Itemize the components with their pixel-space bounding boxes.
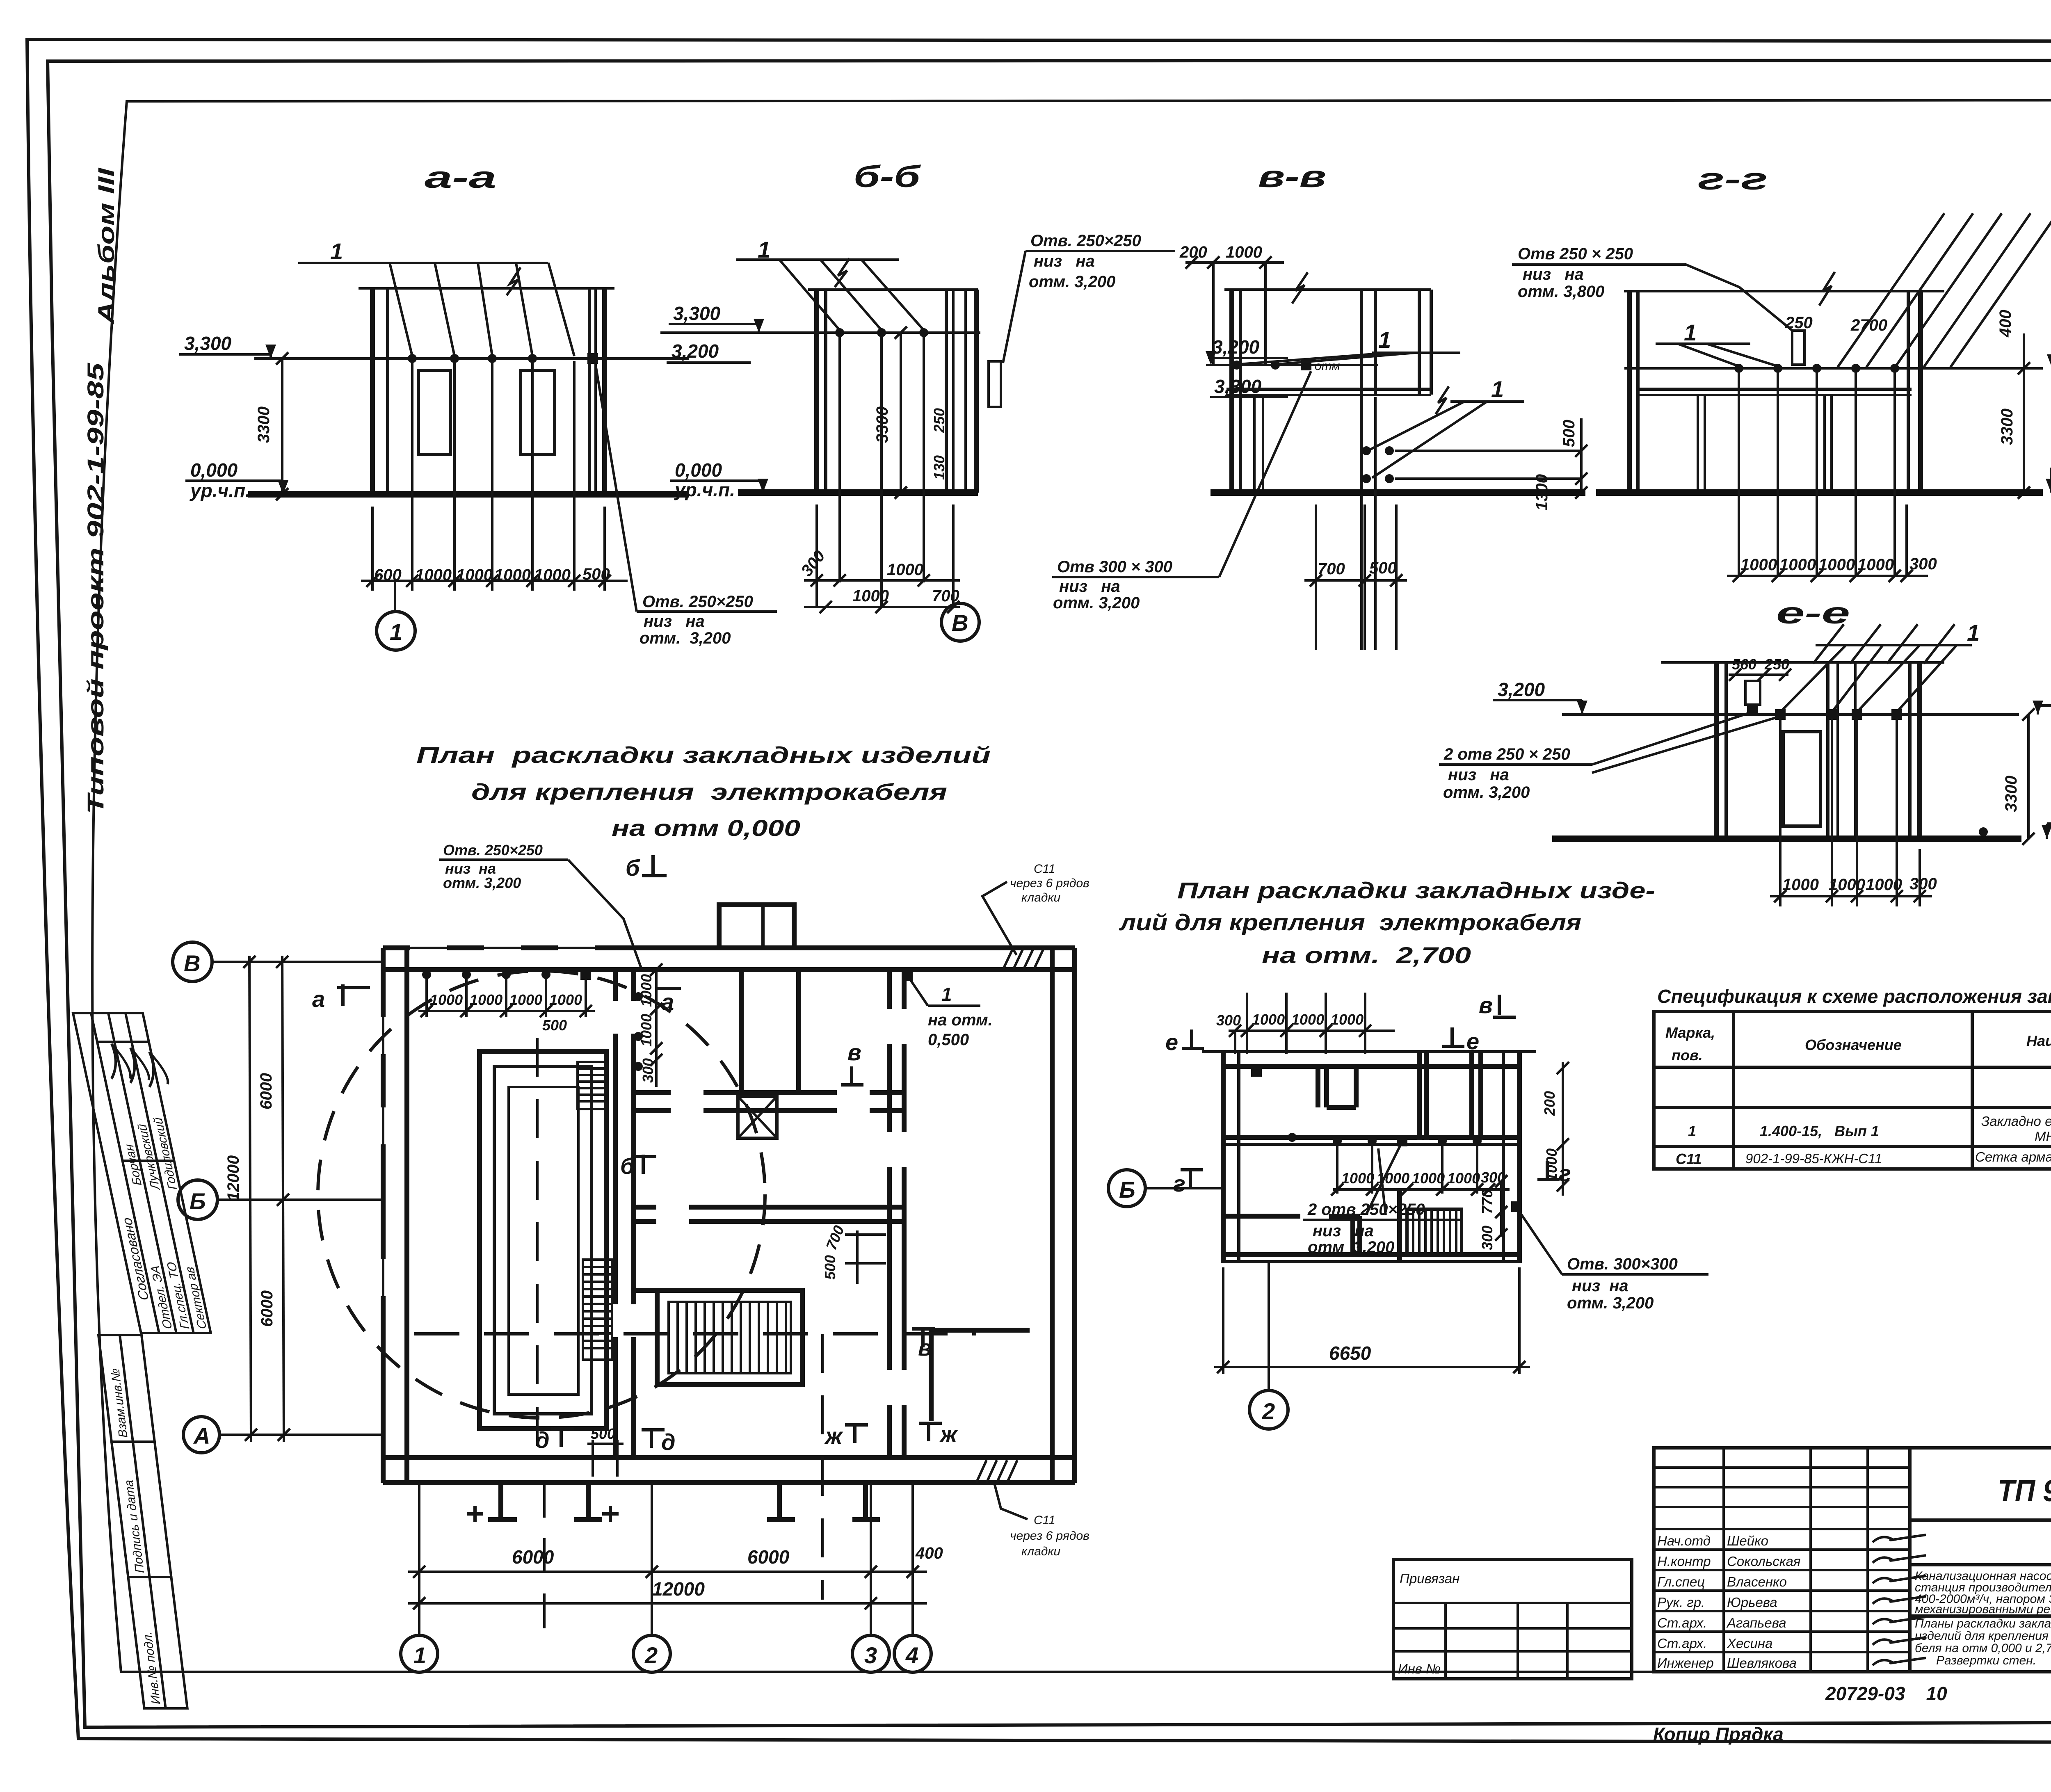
wall left pair — [1627, 291, 1632, 493]
wall left — [370, 288, 375, 494]
svg-text:В: В — [952, 610, 968, 636]
svg-text:4: 4 — [905, 1642, 918, 1668]
top wall hatch patch C11 — [1003, 948, 1044, 970]
level line 3,300 — [254, 357, 689, 360]
svg-text:300: 300 — [1216, 1012, 1241, 1029]
dashed axis horizontal — [414, 1332, 976, 1335]
top wall — [1202, 1050, 1536, 1053]
svg-text:3: 3 — [864, 1642, 877, 1668]
svg-text:ж: ж — [824, 1423, 843, 1449]
svg-text:Н.контр: Н.контр — [1657, 1554, 1711, 1569]
svg-text:План раскладки закладных изде: План раскладки закладных изделий — [416, 742, 991, 768]
level line — [1206, 364, 1378, 366]
svg-text:С11: С11 — [1676, 1151, 1702, 1167]
lower anchors — [1362, 446, 1371, 455]
svg-text:ур.ч.п.: ур.ч.п. — [190, 480, 251, 501]
left margin lower stamps (skewed) — [98, 1335, 187, 1708]
dim chain — [361, 580, 628, 582]
inner dim chain — [1331, 1144, 1510, 1196]
level line — [1624, 367, 2043, 370]
small opening — [989, 361, 1001, 407]
svg-text:Хесина: Хесина — [1727, 1636, 1772, 1651]
axis circle A — [183, 1417, 219, 1453]
axis line B — [217, 1198, 383, 1201]
anchors — [408, 354, 417, 363]
svg-text:в: в — [847, 1039, 861, 1065]
corridor wall 2 — [634, 1204, 968, 1225]
svg-text:3300: 3300 — [2002, 776, 2020, 812]
svg-text:0,000: 0,000 — [675, 459, 722, 481]
svg-text:1: 1 — [1684, 320, 1697, 345]
svg-text:3,200: 3,200 — [671, 340, 719, 362]
svg-text:е: е — [1165, 1029, 1178, 1055]
svg-text:Отв. 250×250: Отв. 250×250 — [443, 842, 543, 858]
svg-text:1: 1 — [330, 238, 343, 264]
opening 2 — [521, 370, 555, 454]
svg-text:3300: 3300 — [1998, 409, 2016, 445]
svg-text:Шевлякова: Шевлякова — [1727, 1655, 1797, 1671]
wall left pair — [1229, 290, 1234, 493]
column right — [1418, 290, 1421, 395]
svg-text:1000: 1000 — [494, 566, 531, 584]
svg-text:2: 2 — [1262, 1398, 1275, 1424]
wall left pair — [814, 290, 819, 493]
svg-text:Типовой проект 902-1-99-85: Типовой проект 902-1-99-85 — [82, 363, 108, 814]
svg-text:Ст.арх.: Ст.арх. — [1657, 1615, 1707, 1630]
axis to circle 2 — [1268, 1263, 1270, 1390]
svg-text:6650: 6650 — [1329, 1342, 1371, 1364]
svg-text:1.400-15, Вып 1: 1.400-15, Вып 1 — [1760, 1123, 1879, 1139]
svg-text:2 отв 250×250: 2 отв 250×250 — [1307, 1201, 1425, 1219]
svg-text:3,200: 3,200 — [1498, 679, 1545, 700]
svg-text:Инв №: Инв № — [1398, 1661, 1441, 1676]
svg-text:Закладно е изделие: Закладно е изделие — [1981, 1114, 2051, 1129]
svg-text:а-а: а-а — [425, 160, 496, 194]
svg-text:б: б — [620, 1153, 635, 1179]
svg-text:1000: 1000 — [1857, 556, 1894, 574]
small opening — [1792, 331, 1804, 365]
small left table — [1393, 1559, 1632, 1679]
svg-text:130: 130 — [931, 455, 948, 480]
lower-left room — [1223, 1216, 1360, 1255]
svg-text:300: 300 — [1479, 1226, 1496, 1250]
left dim lines — [224, 956, 290, 1442]
top inner dim chain — [418, 969, 595, 1034]
main stairs — [657, 1290, 802, 1385]
shaft with X — [738, 1096, 777, 1138]
walls — [1714, 662, 1719, 839]
svg-text:для крепления электрокабеля: для крепления электрокабеля — [471, 779, 947, 805]
svg-text:кладки: кладки — [1021, 891, 1061, 904]
svg-text:Отв. 250×250: Отв. 250×250 — [642, 593, 753, 611]
svg-text:Спецификация к схеме расположе: Спецификация к схеме расположения заклад… — [1657, 986, 2051, 1007]
svg-text:Рук. гр.: Рук. гр. — [1657, 1595, 1705, 1610]
svg-text:Юрьева: Юрьева — [1727, 1595, 1777, 1610]
svg-text:Нач.отд: Нач.отд — [1657, 1533, 1711, 1548]
level line — [660, 331, 980, 334]
mid wall — [612, 970, 637, 1458]
svg-text:500: 500 — [822, 1255, 838, 1280]
pit stair bottom — [583, 1260, 612, 1360]
leader line — [298, 262, 548, 264]
svg-text:500: 500 — [591, 1425, 615, 1442]
svg-text:ж: ж — [939, 1421, 958, 1447]
svg-text:1000: 1000 — [1829, 876, 1865, 894]
bottom wall — [1223, 1252, 1519, 1257]
vertical dim 3300 right — [2023, 333, 2025, 493]
right wall — [1502, 1052, 1505, 1263]
svg-text:Сетка арматурная С-11: Сетка арматурная С-11 — [1975, 1149, 2051, 1164]
bottom wall — [383, 1455, 1075, 1460]
ground line — [738, 489, 978, 496]
svg-text:2700: 2700 — [1850, 316, 1887, 334]
vertical dim 3300 — [281, 358, 283, 494]
svg-text:кладки: кладки — [1021, 1545, 1061, 1558]
leader fan — [1780, 645, 1957, 712]
svg-text:Ст.арх.: Ст.арх. — [1657, 1636, 1707, 1651]
svg-text:Власенко: Власенко — [1727, 1574, 1787, 1589]
svg-text:250: 250 — [1764, 656, 1789, 673]
bottom axis circles — [401, 1635, 438, 1672]
svg-text:ТП 902-1-99-85 -АР: ТП 902-1-99-85 -АР — [1998, 1474, 2051, 1508]
signature table — [1654, 1448, 1910, 1672]
svg-text:Отв. 300×300: Отв. 300×300 — [1567, 1255, 1678, 1273]
svg-text:1000: 1000 — [1252, 1011, 1285, 1028]
pit centerline dashed — [536, 1038, 539, 1460]
svg-text:В: В — [184, 950, 200, 976]
shelf — [1226, 388, 1431, 391]
svg-text:1000: 1000 — [470, 991, 502, 1008]
channel 1 below — [488, 1483, 602, 1634]
svg-text:д: д — [535, 1427, 550, 1453]
dims to right — [1395, 450, 1581, 452]
vertical dim 3300 — [900, 333, 902, 493]
dim chain rows — [804, 579, 960, 582]
svg-text:Наименование: Наименование — [2026, 1032, 2051, 1049]
dim chain — [1727, 575, 1928, 577]
svg-text:Отв 250 × 250: Отв 250 × 250 — [1518, 245, 1633, 263]
svg-text:1000: 1000 — [456, 566, 493, 584]
leader fan — [390, 263, 574, 356]
svg-text:С11: С11 — [1034, 862, 1055, 876]
svg-text:2 отв 250 × 250: 2 отв 250 × 250 — [1443, 745, 1570, 763]
svg-text:1: 1 — [1967, 620, 1980, 646]
svg-text:400: 400 — [1996, 310, 2014, 338]
svg-text:отм. 3,200: отм. 3,200 — [1053, 594, 1140, 612]
svg-text:500: 500 — [542, 1017, 567, 1034]
svg-text:низ на: низ на — [1572, 1277, 1628, 1295]
right wall — [1050, 948, 1055, 1483]
svg-text:20729-03 10: 20729-03 10 — [1825, 1683, 1947, 1704]
svg-text:а: а — [312, 986, 325, 1012]
svg-text:770: 770 — [1479, 1189, 1496, 1214]
wall right — [588, 288, 591, 494]
svg-text:Альбом III: Альбом III — [93, 167, 119, 325]
svg-text:300: 300 — [1909, 875, 1937, 893]
anchors — [1734, 364, 1743, 373]
hatch fan — [1838, 213, 2051, 367]
ground line — [1211, 489, 1585, 496]
dashed axis vertical right — [821, 1334, 824, 1600]
partition 1 — [739, 970, 744, 1093]
anchors — [1775, 709, 1786, 720]
svg-text:3,300: 3,300 — [184, 333, 232, 354]
svg-text:12000: 12000 — [224, 1155, 242, 1201]
anchors — [835, 328, 844, 337]
svg-text:1000: 1000 — [1291, 1011, 1324, 1028]
svg-text:пов.: пов. — [1672, 1047, 1703, 1064]
door — [1783, 732, 1820, 826]
svg-text:1000: 1000 — [534, 566, 571, 584]
svg-text:механизированными решетками: механизированными решетками — [1915, 1603, 2051, 1616]
top wall windows — [410, 945, 595, 951]
left inner vertical dims — [634, 963, 662, 1087]
svg-text:700: 700 — [1318, 560, 1345, 578]
machine pit innermost — [509, 1087, 578, 1395]
svg-text:1000: 1000 — [887, 561, 923, 579]
svg-text:в-в: в-в — [1258, 160, 1326, 194]
pit stair top — [578, 1062, 606, 1109]
svg-text:1: 1 — [413, 1642, 426, 1668]
svg-text:3,200: 3,200 — [1212, 336, 1260, 358]
svg-text:1000: 1000 — [852, 587, 889, 605]
svg-text:1000: 1000 — [1818, 556, 1855, 574]
svg-text:Гл.спец: Гл.спец — [1657, 1574, 1705, 1589]
svg-text:500: 500 — [1560, 420, 1578, 447]
right part of title block — [1910, 1448, 2051, 1672]
mid floor line — [1223, 1135, 1519, 1140]
wall top line — [1624, 290, 1944, 292]
svg-text:е-е: е-е — [1776, 596, 1850, 630]
svg-text:ур.ч.п.: ур.ч.п. — [674, 479, 735, 500]
svg-text:1000: 1000 — [415, 566, 452, 584]
big dashed circle — [318, 971, 765, 1418]
left margin vertical captions — [82, 167, 119, 814]
svg-text:отм 3,200: отм 3,200 — [1308, 1238, 1394, 1256]
svg-text:1: 1 — [1491, 376, 1504, 402]
svg-text:на отм 0,000: на отм 0,000 — [612, 815, 800, 841]
chimney opening — [1745, 681, 1760, 705]
svg-text:Отв 300 × 300: Отв 300 × 300 — [1057, 558, 1172, 576]
axis line A — [219, 1434, 383, 1436]
svg-text:А: А — [193, 1423, 210, 1449]
svg-text:6000: 6000 — [257, 1073, 275, 1109]
svg-text:г: г — [1559, 1160, 1571, 1186]
ground line — [1596, 489, 2043, 496]
svg-text:низ на: низ на — [644, 612, 705, 630]
svg-text:С11: С11 — [1034, 1513, 1055, 1527]
svg-text:1000: 1000 — [1412, 1170, 1445, 1187]
machine pit inner — [494, 1066, 592, 1414]
svg-text:1000: 1000 — [638, 1014, 655, 1047]
level line — [1562, 713, 2019, 716]
axis circle V — [941, 603, 979, 641]
ground — [1552, 836, 2021, 842]
svg-text:1000: 1000 — [509, 991, 542, 1008]
bottom dim 6650 — [1214, 1267, 1530, 1374]
svg-text:отм. 3,200: отм. 3,200 — [1029, 273, 1115, 291]
room partitions top band — [1318, 1066, 1356, 1107]
svg-text:1000: 1000 — [1226, 243, 1262, 261]
svg-text:200: 200 — [1179, 243, 1207, 261]
ground line — [248, 491, 689, 498]
porch — [719, 905, 794, 948]
svg-text:500: 500 — [1369, 559, 1397, 577]
svg-text:Марка,: Марка, — [1665, 1024, 1715, 1041]
svg-text:1000: 1000 — [1779, 556, 1816, 574]
axis circle B left — [1108, 1170, 1145, 1207]
anchors mid — [1333, 1137, 1342, 1146]
svg-text:отм. 3,200: отм. 3,200 — [1443, 783, 1530, 801]
svg-text:Сокольская: Сокольская — [1727, 1554, 1800, 1569]
axis circle 1 — [377, 612, 415, 650]
wall right pair — [1907, 291, 1910, 493]
supports — [1697, 395, 1699, 493]
svg-text:1000: 1000 — [549, 991, 582, 1008]
svg-text:1000: 1000 — [638, 974, 655, 1007]
anchors — [1232, 361, 1241, 370]
svg-text:Агапьева: Агапьева — [1726, 1615, 1786, 1630]
svg-text:отм. 3,200: отм. 3,200 — [640, 629, 731, 647]
partition 2 — [796, 970, 801, 1093]
top wall — [383, 945, 1075, 950]
svg-text:на отм. 2,700: на отм. 2,700 — [1262, 942, 1471, 968]
svg-text:а: а — [661, 989, 674, 1015]
svg-text:в: в — [1479, 992, 1493, 1018]
dim extensions — [1739, 371, 1907, 576]
svg-text:700: 700 — [932, 587, 959, 605]
svg-text:250: 250 — [931, 408, 948, 433]
svg-text:0,000: 0,000 — [190, 459, 238, 481]
bottom dims — [1780, 718, 1920, 906]
svg-text:1000: 1000 — [1331, 1011, 1364, 1028]
bottom axis lines — [419, 1483, 913, 1634]
svg-text:560: 560 — [1732, 656, 1756, 673]
svg-text:изделий для крепления электрок: изделий для крепления электрока- — [1915, 1629, 2051, 1643]
wall top line — [808, 288, 978, 291]
column mid — [1360, 290, 1363, 493]
svg-text:План раскладки закладных изде-: План раскладки закладных изде- — [1177, 877, 1655, 903]
svg-text:Инженер: Инженер — [1657, 1655, 1714, 1671]
svg-text:1000: 1000 — [1866, 876, 1902, 894]
axis circle B — [178, 1180, 217, 1219]
svg-text:600: 600 — [374, 566, 402, 584]
svg-text:Планы раскладки закладных: Планы раскладки закладных — [1915, 1617, 2051, 1630]
svg-text:г: г — [1173, 1171, 1185, 1196]
svg-text:низ на: низ на — [1034, 252, 1095, 270]
svg-text:1: 1 — [1688, 1123, 1696, 1139]
dim extensions — [817, 335, 953, 607]
axis circle 2 — [1249, 1390, 1288, 1429]
svg-text:Развертки стен.: Развертки стен. — [1936, 1654, 2036, 1667]
svg-text:3,300: 3,300 — [673, 303, 721, 324]
svg-text:МН108-6: МН108-6 — [2035, 1129, 2051, 1144]
svg-text:1000: 1000 — [1740, 556, 1777, 574]
svg-text:Шейко: Шейко — [1727, 1533, 1768, 1548]
svg-text:низ на: низ на — [1448, 766, 1509, 784]
shelf — [1638, 388, 1912, 391]
wall right group — [945, 290, 948, 493]
svg-text:500: 500 — [582, 565, 610, 583]
wall top line — [1224, 288, 1431, 291]
left wall windows — [380, 1017, 386, 1296]
svg-text:отм. 3,800: отм. 3,800 — [1518, 283, 1604, 301]
svg-text:1: 1 — [941, 984, 952, 1005]
cross marks — [467, 1506, 619, 1522]
svg-text:1000: 1000 — [1782, 876, 1819, 894]
axis line to circle — [394, 581, 396, 611]
axis line V — [212, 961, 383, 963]
wall top line — [359, 287, 614, 290]
axis circle V — [173, 942, 212, 982]
right side dims — [1479, 1062, 1569, 1250]
svg-text:Б: Б — [190, 1188, 206, 1214]
support — [1253, 395, 1256, 493]
left wall — [381, 948, 386, 1483]
svg-text:низ на: низ на — [1313, 1222, 1374, 1240]
svg-text:3300: 3300 — [255, 406, 273, 443]
corridor wall 1 — [634, 1089, 904, 1114]
partition 3 (hall wall) — [886, 970, 907, 1458]
svg-text:Отв. 250×250: Отв. 250×250 — [1030, 232, 1141, 250]
svg-text:Б: Б — [1119, 1177, 1135, 1203]
svg-text:беля на отм 0,000 и 2,700: беля на отм 0,000 и 2,700 — [1915, 1641, 2051, 1655]
svg-text:лий для крепления электрокабе: лий для крепления электрокабеля — [1119, 909, 1581, 935]
svg-text:отм. 3,200: отм. 3,200 — [1567, 1294, 1654, 1312]
stairs — [1400, 1189, 1462, 1262]
svg-text:через 6 рядов: через 6 рядов — [1010, 1529, 1089, 1543]
svg-text:6000: 6000 — [258, 1290, 276, 1327]
svg-text:3,300: 3,300 — [1214, 376, 1262, 397]
L-wall bottom right — [931, 1330, 1030, 1421]
bottom wall hatch patch C11 — [976, 1460, 1017, 1483]
vertical dim 3300 — [2027, 715, 2030, 839]
dim extension lines — [372, 361, 605, 591]
svg-text:200: 200 — [1541, 1091, 1558, 1116]
svg-text:1: 1 — [1378, 327, 1391, 353]
bottom dim chains — [408, 1544, 943, 1609]
channel 2 below — [767, 1483, 880, 1520]
svg-text:12000: 12000 — [652, 1578, 705, 1600]
svg-text:2: 2 — [644, 1642, 658, 1668]
svg-text:1000: 1000 — [430, 991, 463, 1008]
svg-text:902-1-99-85-КЖН-С11: 902-1-99-85-КЖН-С11 — [1745, 1151, 1882, 1166]
svg-text:низ на: низ на — [1523, 265, 1584, 283]
svg-text:1000: 1000 — [1447, 1170, 1480, 1187]
svg-text:г-г: г-г — [1698, 162, 1768, 196]
svg-text:250: 250 — [1785, 314, 1813, 332]
roof hatch — [1813, 624, 1955, 664]
top dim chain — [1216, 993, 1395, 1054]
svg-text:6000: 6000 — [747, 1546, 790, 1568]
svg-text:б-б: б-б — [854, 160, 921, 194]
svg-text:300: 300 — [1909, 555, 1937, 573]
svg-text:1: 1 — [390, 619, 402, 645]
left margin approval stamp (skewed) — [73, 1013, 222, 1333]
left wall — [1221, 1052, 1226, 1263]
svg-text:1000: 1000 — [1341, 1170, 1374, 1187]
svg-text:300: 300 — [640, 1058, 656, 1083]
svg-text:д: д — [661, 1429, 676, 1455]
svg-text:через 6 рядов: через 6 рядов — [1010, 877, 1089, 890]
wall stub lower middle — [634, 1288, 673, 1293]
machine pit outer — [480, 1051, 606, 1429]
bottom dims — [1316, 397, 1396, 650]
svg-text:отм. 3,200: отм. 3,200 — [443, 874, 521, 891]
svg-text:б: б — [626, 855, 640, 881]
svg-text:низ на: низ на — [1059, 578, 1120, 596]
svg-text:0,500: 0,500 — [928, 1031, 969, 1049]
